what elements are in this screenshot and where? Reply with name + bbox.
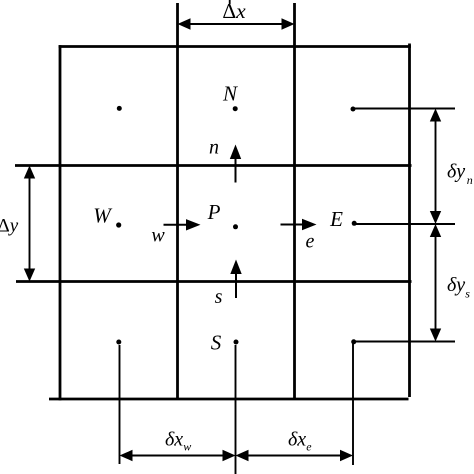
dimension line delta-x-w (bottom left): [122, 455, 233, 457]
arrowhead right of delta-x-e dimension: [340, 450, 353, 461]
node P dot: [233, 224, 238, 229]
control volume outer boundary: right edge: [408, 44, 411, 398]
arrowhead right of delta-x-w dimension: [223, 450, 236, 461]
node E dot: [352, 221, 357, 226]
face velocity arrow w (right through west face): [164, 224, 194, 226]
face velocity arrow s (up through south face): [235, 267, 237, 298]
reference line down from node SE: [352, 344, 354, 465]
extension line from node E to the right: [354, 223, 455, 225]
svg-text:Δy: Δy: [0, 216, 19, 237]
grid line: north cell face (horizontal, extended left to dimension area): [15, 164, 412, 167]
dimension line delta-x-e (bottom right): [238, 455, 351, 457]
node S dot: [234, 340, 239, 345]
svg-text:N: N: [222, 82, 238, 106]
arrowhead left of delta-x dimension: [178, 18, 191, 29]
control volume outer boundary: left edge: [59, 45, 62, 400]
arrowhead left of delta-x-w dimension: [120, 450, 133, 461]
arrowhead top of delta-y dimension: [24, 166, 35, 179]
node N dot: [233, 106, 238, 111]
svg-text:W: W: [93, 204, 113, 228]
node SE dot: [351, 339, 356, 344]
stub line above label delta-x: [229, 0, 231, 4]
reference line down from node S: [235, 345, 237, 474]
extension line from node SE to the right: [354, 341, 456, 343]
arrowhead top of delta-y-n dimension: [430, 109, 441, 122]
control volume outer boundary: top edge: [59, 45, 411, 48]
node NW dot: [117, 106, 122, 111]
svg-text:s: s: [215, 286, 223, 308]
dimension line delta-x (top): [180, 23, 292, 25]
face velocity arrow e (right through east face): [281, 224, 311, 226]
dimension line delta-y-n (right upper): [435, 111, 437, 222]
grid line: east cell face (vertical, extended up to dimension area): [293, 3, 296, 399]
arrowhead right of delta-x dimension: [282, 18, 295, 29]
arrowhead left of delta-x-e dimension: [236, 450, 249, 461]
node SW dot: [116, 340, 121, 345]
arrowhead top of delta-y-s dimension: [430, 224, 441, 237]
svg-text:w: w: [151, 225, 165, 247]
grid line: west cell face (vertical, extended up to dimension area): [176, 3, 179, 399]
reference line down from node SW: [119, 345, 121, 464]
arrowhead bottom of delta-y-s dimension: [430, 329, 441, 342]
svg-text:S: S: [211, 331, 222, 355]
svg-text:e: e: [306, 231, 315, 253]
arrowhead bottom of delta-y dimension: [24, 269, 35, 282]
dimension line delta-y-s (right lower): [435, 227, 437, 340]
svg-text:E: E: [329, 207, 343, 231]
node NE dot: [351, 107, 356, 112]
svg-text:Δx: Δx: [222, 0, 246, 23]
grid line: south cell face (horizontal, extended left to dimension area): [16, 280, 412, 283]
node W dot: [116, 222, 121, 227]
dimension line delta-y (left): [29, 168, 31, 279]
extension line from node NE to the right: [353, 108, 455, 110]
control volume outer boundary: bottom edge: [49, 398, 409, 401]
svg-text:P: P: [207, 200, 221, 224]
face velocity arrow n (up through north face): [235, 152, 237, 183]
svg-text:n: n: [209, 137, 219, 159]
arrowhead bottom of delta-y-n dimension: [430, 211, 441, 224]
